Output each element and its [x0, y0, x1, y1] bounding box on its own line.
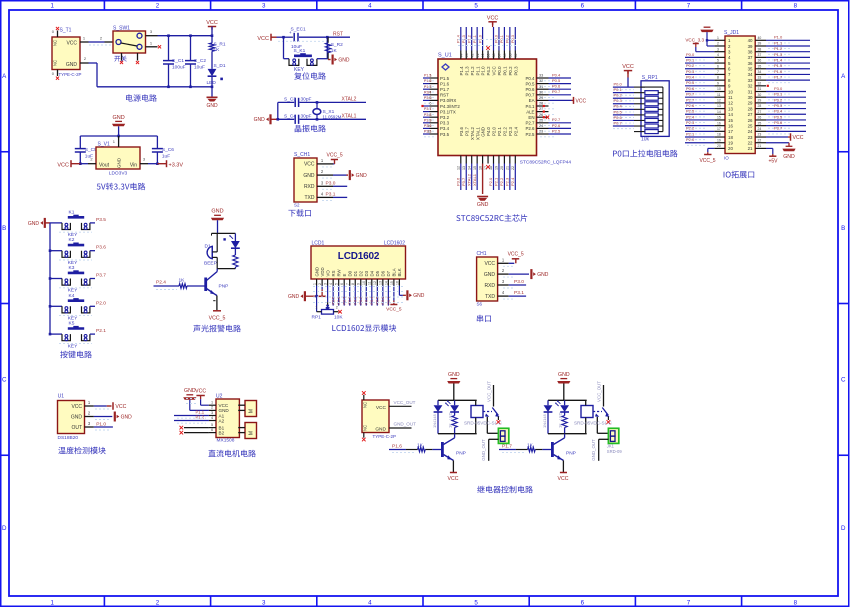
svg-text:XTAL2: XTAL2 — [466, 173, 471, 186]
svg-text:P3.3: P3.3 — [774, 103, 783, 108]
svg-text:17: 17 — [728, 129, 733, 134]
svg-text:35: 35 — [758, 64, 762, 68]
svg-text:XTAL1: XTAL1 — [342, 113, 357, 119]
svg-text:P0.6: P0.6 — [381, 297, 385, 305]
svg-text:P0.3: P0.3 — [686, 69, 695, 74]
svg-text:P1.6: P1.6 — [774, 69, 783, 74]
svg-text:2: 2 — [156, 3, 160, 10]
svg-text:8: 8 — [351, 283, 355, 285]
svg-text:VCC_5: VCC_5 — [209, 315, 226, 321]
svg-text:PNP: PNP — [566, 451, 576, 457]
svg-text:30: 30 — [539, 90, 543, 94]
svg-text:GND: GND — [206, 103, 218, 109]
svg-text:P2.6: P2.6 — [686, 103, 695, 108]
svg-text:31: 31 — [758, 87, 762, 91]
svg-text:1: 1 — [50, 3, 54, 10]
svg-text:38: 38 — [758, 47, 762, 51]
svg-text:S_K1: S_K1 — [294, 48, 306, 54]
svg-text:VCC: VCC — [793, 135, 804, 141]
svg-text:P3.6: P3.6 — [459, 126, 464, 136]
svg-text:32: 32 — [758, 81, 762, 85]
svg-text:27: 27 — [539, 107, 543, 111]
svg-text:13: 13 — [717, 104, 721, 108]
svg-text:6: 6 — [717, 64, 719, 68]
svg-text:P2.6: P2.6 — [552, 123, 561, 128]
svg-text:KEY: KEY — [294, 67, 305, 73]
svg-text:BLA: BLA — [392, 268, 397, 276]
svg-text:4: 4 — [368, 600, 372, 607]
svg-text:P4.0: P4.0 — [486, 126, 491, 136]
svg-text:26: 26 — [539, 113, 543, 117]
svg-text:TYPE-C-2P: TYPE-C-2P — [373, 434, 397, 439]
svg-text:33: 33 — [748, 78, 753, 83]
svg-text:P1.7: P1.7 — [440, 87, 450, 92]
svg-text:P0.2: P0.2 — [508, 66, 513, 76]
svg-text:KEY: KEY — [68, 232, 78, 238]
svg-text:CH1: CH1 — [477, 251, 487, 257]
svg-text:GND: GND — [211, 209, 223, 215]
svg-text:12: 12 — [717, 98, 721, 102]
svg-text:1: 1 — [717, 36, 719, 40]
svg-text:P2.7: P2.7 — [343, 297, 347, 305]
svg-text:30pF: 30pF — [301, 96, 312, 102]
svg-text:GND: GND — [558, 372, 570, 378]
svg-text:8: 8 — [717, 76, 719, 80]
svg-text:P1.7: P1.7 — [424, 85, 431, 89]
svg-text:P0.0: P0.0 — [614, 82, 623, 87]
svg-text:11: 11 — [728, 95, 733, 100]
svg-text:9: 9 — [717, 81, 719, 85]
svg-text:18: 18 — [489, 166, 493, 170]
svg-text:GND: GND — [254, 117, 266, 123]
svg-text:21: 21 — [758, 144, 762, 148]
svg-text:1K: 1K — [331, 48, 338, 54]
svg-text:S_RP1: S_RP1 — [642, 75, 658, 81]
svg-text:+5V: +5V — [768, 159, 778, 165]
svg-text:24: 24 — [539, 124, 543, 128]
svg-text:P2.0: P2.0 — [686, 137, 695, 142]
svg-text:D2: D2 — [359, 270, 364, 276]
svg-text:VCC_OUT: VCC_OUT — [487, 381, 492, 402]
svg-text:GND: GND — [71, 414, 83, 420]
svg-text:19: 19 — [728, 141, 733, 146]
svg-text:B: B — [2, 225, 6, 232]
svg-text:+3.3V: +3.3V — [169, 162, 184, 168]
svg-text:PNP: PNP — [219, 283, 229, 289]
svg-text:S_C3: S_C3 — [284, 96, 296, 102]
svg-text:37: 37 — [498, 54, 502, 58]
svg-text:24: 24 — [748, 129, 753, 134]
svg-text:6: 6 — [340, 283, 344, 285]
svg-text:P0.4: P0.4 — [614, 104, 623, 109]
svg-text:P0.5: P0.5 — [376, 297, 380, 305]
svg-text:P1.4: P1.4 — [459, 66, 464, 76]
svg-text:P3.1: P3.1 — [326, 192, 336, 198]
svg-text:36: 36 — [503, 54, 507, 58]
svg-text:RS: RS — [331, 270, 336, 276]
svg-text:37: 37 — [748, 55, 753, 60]
svg-text:4: 4 — [717, 53, 719, 57]
svg-text:SRD-05VDC-SL-C: SRD-05VDC-SL-C — [574, 420, 613, 425]
svg-text:S_C2: S_C2 — [194, 58, 206, 64]
svg-text:28: 28 — [748, 106, 753, 111]
svg-text:D: D — [2, 525, 7, 532]
svg-text:E: E — [342, 274, 347, 277]
svg-text:31: 31 — [539, 85, 543, 89]
svg-text:C: C — [841, 377, 846, 384]
svg-text:A2: A2 — [219, 418, 225, 423]
svg-text:RP1: RP1 — [312, 315, 322, 321]
svg-text:ALE: ALE — [526, 109, 534, 114]
svg-text:K3: K3 — [69, 265, 75, 271]
svg-text:LDO3V3: LDO3V3 — [109, 171, 128, 177]
svg-text:Vin: Vin — [130, 163, 137, 169]
svg-text:40: 40 — [481, 54, 485, 58]
svg-text:P2.0: P2.0 — [96, 300, 106, 306]
svg-text:38: 38 — [748, 49, 753, 54]
svg-text:M: M — [249, 431, 255, 435]
svg-text:12: 12 — [728, 101, 733, 106]
svg-text:P1.0: P1.0 — [96, 421, 106, 427]
svg-text:3: 3 — [262, 600, 266, 607]
svg-text:P2.7: P2.7 — [686, 97, 695, 102]
svg-text:LED: LED — [447, 412, 452, 420]
svg-text:P1.2: P1.2 — [774, 46, 783, 51]
svg-text:XTAL2: XTAL2 — [470, 126, 475, 140]
svg-text:S_R2: S_R2 — [331, 42, 343, 48]
svg-text:XTAL2: XTAL2 — [342, 96, 357, 102]
svg-text:GND: GND — [338, 57, 350, 63]
svg-text:LCD1602: LCD1602 — [338, 251, 380, 262]
svg-text:VCC: VCC — [448, 476, 459, 482]
svg-text:P2.6: P2.6 — [337, 297, 341, 305]
svg-text:P0.4: P0.4 — [552, 72, 561, 77]
svg-text:VCC: VCC — [66, 41, 77, 47]
svg-text:P0.5: P0.5 — [552, 78, 561, 83]
svg-text:15: 15 — [390, 281, 394, 285]
svg-text:K4: K4 — [69, 293, 75, 299]
svg-text:VCC: VCC — [195, 388, 206, 394]
svg-text:NC: NC — [53, 40, 58, 46]
svg-text:VCC_5: VCC_5 — [508, 252, 524, 258]
svg-text:30: 30 — [758, 93, 762, 97]
svg-text:SRD-05VDC-SL-C: SRD-05VDC-SL-C — [464, 420, 503, 425]
svg-text:S_U1: S_U1 — [438, 53, 452, 59]
svg-text:P3.5: P3.5 — [424, 130, 431, 134]
svg-text:GND_OUT: GND_OUT — [481, 439, 486, 461]
svg-text:D5: D5 — [375, 270, 380, 276]
svg-text:P0.6: P0.6 — [525, 87, 535, 92]
svg-text:24: 24 — [758, 127, 762, 131]
svg-text:P0.5: P0.5 — [525, 81, 535, 86]
svg-text:RW: RW — [336, 268, 341, 276]
svg-text:D1: D1 — [353, 270, 358, 276]
svg-text:10: 10 — [362, 281, 366, 285]
svg-text:P3.7: P3.7 — [461, 177, 466, 186]
svg-text:S_C4: S_C4 — [284, 113, 296, 119]
svg-text:15: 15 — [728, 118, 733, 123]
svg-text:1K: 1K — [179, 278, 186, 284]
svg-text:39: 39 — [748, 44, 753, 49]
svg-text:NC: NC — [363, 425, 368, 431]
svg-text:GND: GND — [117, 157, 122, 168]
svg-text:P3.6: P3.6 — [96, 245, 106, 251]
svg-text:3: 3 — [717, 47, 719, 51]
svg-text:GND: GND — [477, 202, 489, 208]
svg-text:P2.3: P2.3 — [508, 126, 513, 136]
svg-text:P2.5: P2.5 — [686, 109, 695, 114]
svg-text:3: 3 — [324, 283, 328, 285]
svg-text:NC: NC — [363, 402, 368, 408]
svg-text:VCC: VCC — [57, 162, 69, 168]
svg-text:18: 18 — [728, 135, 733, 140]
svg-text:30pF: 30pF — [301, 113, 312, 119]
svg-text:P3.7: P3.7 — [774, 126, 783, 131]
svg-text:41: 41 — [476, 54, 480, 58]
svg-text:10uF: 10uF — [194, 65, 205, 71]
svg-text:P3.4: P3.4 — [774, 109, 783, 114]
svg-text:P2.5: P2.5 — [332, 297, 336, 305]
svg-text:4: 4 — [368, 3, 372, 10]
svg-text:P0.0: P0.0 — [686, 52, 695, 57]
svg-text:VCC: VCC — [622, 64, 634, 70]
svg-text:2: 2 — [336, 306, 338, 310]
svg-text:LED: LED — [557, 412, 562, 420]
svg-text:P2.0: P2.0 — [492, 126, 497, 136]
svg-text:XTAL1: XTAL1 — [472, 173, 477, 186]
svg-text:34: 34 — [758, 70, 762, 74]
svg-text:4: 4 — [211, 416, 213, 420]
svg-text:29: 29 — [539, 96, 543, 100]
svg-text:P3.2: P3.2 — [424, 113, 431, 117]
svg-text:P1.0: P1.0 — [774, 35, 783, 40]
svg-text:1uF: 1uF — [162, 154, 170, 160]
svg-text:VCC: VCC — [558, 476, 569, 482]
svg-text:KEY: KEY — [68, 288, 78, 294]
svg-text:P1.3: P1.3 — [464, 66, 469, 76]
svg-text:P0.7: P0.7 — [686, 92, 695, 97]
svg-text:27: 27 — [758, 110, 762, 114]
svg-text:16: 16 — [395, 281, 399, 285]
svg-text:PNP: PNP — [456, 451, 466, 457]
svg-text:35: 35 — [508, 54, 512, 58]
svg-text:38: 38 — [492, 54, 496, 58]
svg-text:GND: GND — [537, 272, 549, 278]
svg-text:NC: NC — [53, 60, 58, 66]
svg-text:S_D1: S_D1 — [214, 63, 226, 69]
svg-text:11.0592M: 11.0592M — [323, 114, 342, 119]
svg-text:1K: 1K — [417, 442, 424, 448]
svg-text:5: 5 — [211, 423, 213, 427]
svg-text:13: 13 — [728, 106, 733, 111]
svg-text:P0.6: P0.6 — [552, 84, 561, 89]
svg-text:P3.2: P3.2 — [774, 97, 783, 102]
svg-text:VCC_3.3: VCC_3.3 — [685, 37, 704, 42]
svg-text:P0.7: P0.7 — [552, 89, 561, 94]
svg-text:GND: GND — [356, 173, 368, 179]
svg-text:S2: S2 — [294, 203, 300, 208]
svg-text:GND: GND — [288, 294, 300, 300]
svg-text:7: 7 — [346, 283, 350, 285]
svg-text:19: 19 — [495, 166, 499, 170]
svg-text:P3.4: P3.4 — [424, 124, 431, 128]
svg-text:29: 29 — [748, 101, 753, 106]
svg-text:P3.3: P3.3 — [424, 118, 431, 122]
svg-text:GND: GND — [481, 127, 486, 137]
svg-text:26: 26 — [758, 116, 762, 120]
svg-text:7: 7 — [687, 3, 691, 10]
svg-text:P3.1: P3.1 — [424, 107, 431, 111]
svg-text:44: 44 — [459, 54, 463, 58]
svg-text:GND: GND — [66, 62, 78, 68]
svg-text:GND: GND — [28, 221, 40, 227]
svg-text:2: 2 — [717, 42, 719, 46]
svg-text:4: 4 — [329, 283, 333, 285]
svg-text:1N4148: 1N4148 — [542, 414, 547, 428]
svg-text:P1.5: P1.5 — [424, 74, 431, 78]
svg-text:P1.7: P1.7 — [502, 444, 512, 450]
svg-text:GND: GND — [184, 388, 196, 394]
svg-text:P2.5: P2.5 — [525, 132, 535, 137]
svg-text:1N4148: 1N4148 — [432, 414, 437, 428]
svg-text:VDD: VDD — [320, 267, 325, 276]
svg-text:P4.1: P4.1 — [525, 104, 535, 109]
svg-text:1: 1 — [313, 283, 317, 285]
svg-text:XTAL1: XTAL1 — [475, 126, 480, 140]
svg-text:P2.1: P2.1 — [686, 131, 695, 136]
svg-text:11: 11 — [368, 281, 372, 285]
svg-text:K5: K5 — [69, 321, 75, 327]
svg-text:35: 35 — [748, 67, 753, 72]
svg-text:P2.2: P2.2 — [686, 126, 695, 131]
svg-text:7: 7 — [687, 600, 691, 607]
svg-text:P0.1: P0.1 — [354, 297, 358, 305]
svg-text:19: 19 — [717, 138, 721, 142]
svg-text:VCC: VCC — [257, 36, 269, 42]
svg-text:P2.3: P2.3 — [686, 120, 695, 125]
svg-text:6: 6 — [429, 102, 431, 106]
svg-text:20: 20 — [500, 166, 504, 170]
svg-text:8: 8 — [794, 600, 798, 607]
svg-text:2: 2 — [156, 600, 160, 607]
svg-text:GND_OUT: GND_OUT — [394, 422, 417, 427]
svg-text:P1.4: P1.4 — [774, 57, 783, 62]
svg-text:VCC_5: VCC_5 — [327, 152, 343, 158]
svg-text:7: 7 — [717, 70, 719, 74]
svg-text:P3.1/TX: P3.1/TX — [440, 109, 456, 114]
svg-text:P2.4: P2.4 — [513, 126, 518, 136]
svg-text:P1.7: P1.7 — [774, 75, 783, 80]
svg-text:K1: K1 — [69, 209, 75, 215]
svg-text:VCC: VCC — [206, 20, 218, 26]
svg-text:1K: 1K — [214, 47, 221, 53]
svg-text:C: C — [2, 377, 7, 384]
svg-text:14: 14 — [728, 112, 733, 117]
svg-text:12: 12 — [457, 166, 461, 170]
svg-text:32: 32 — [748, 84, 753, 89]
svg-text:D0: D0 — [348, 270, 353, 276]
svg-text:30: 30 — [748, 95, 753, 100]
svg-text:P2.1: P2.1 — [96, 328, 106, 334]
svg-text:P1.6: P1.6 — [440, 81, 450, 86]
svg-text:36: 36 — [748, 61, 753, 66]
svg-text:S_C1: S_C1 — [172, 58, 184, 64]
svg-text:34: 34 — [748, 72, 753, 77]
svg-text:1: 1 — [50, 600, 54, 607]
svg-text:B2: B2 — [219, 430, 225, 435]
svg-text:S6: S6 — [477, 302, 483, 307]
svg-text:P1.6: P1.6 — [424, 79, 431, 83]
svg-text:P3.6: P3.6 — [774, 120, 783, 125]
svg-text:P1.2: P1.2 — [470, 66, 475, 76]
svg-text:TYPE-C-2P: TYPE-C-2P — [59, 72, 82, 77]
svg-text:23: 23 — [539, 130, 543, 134]
svg-text:P0.7: P0.7 — [614, 120, 623, 125]
svg-text:39: 39 — [758, 42, 762, 46]
svg-text:10: 10 — [728, 89, 733, 94]
svg-text:1: 1 — [211, 401, 213, 405]
svg-text:P3.0: P3.0 — [774, 86, 783, 91]
svg-text:BLK: BLK — [397, 268, 402, 276]
svg-text:P3.6: P3.6 — [456, 177, 461, 186]
svg-text:40: 40 — [758, 36, 762, 40]
svg-text:28: 28 — [539, 102, 543, 106]
svg-text:6: 6 — [581, 3, 585, 10]
svg-text:20: 20 — [728, 146, 733, 151]
svg-text:22: 22 — [758, 138, 762, 142]
svg-text:D1: D1 — [205, 243, 211, 249]
svg-text:MX1508: MX1508 — [217, 437, 235, 443]
svg-text:JK1: JK1 — [607, 443, 615, 448]
svg-text:3: 3 — [262, 3, 266, 10]
svg-text:S_C5: S_C5 — [85, 147, 97, 153]
svg-text:VO: VO — [325, 270, 330, 277]
svg-text:P3.5: P3.5 — [774, 114, 783, 119]
svg-text:VCC_OUT: VCC_OUT — [394, 400, 416, 405]
svg-text:36: 36 — [758, 59, 762, 63]
svg-text:12: 12 — [373, 281, 377, 285]
svg-text:P1.6: P1.6 — [392, 444, 402, 450]
svg-text:16: 16 — [728, 123, 733, 128]
svg-text:K2: K2 — [69, 237, 75, 243]
svg-text:P1.1: P1.1 — [774, 40, 783, 45]
svg-text:GND: GND — [448, 372, 460, 378]
svg-text:TXD: TXD — [485, 294, 495, 300]
svg-text:D: D — [841, 525, 846, 532]
svg-text:S_R1: S_R1 — [214, 41, 226, 47]
svg-text:25: 25 — [539, 118, 543, 122]
svg-text:EA: EA — [529, 98, 535, 103]
svg-text:VCC: VCC — [484, 261, 495, 267]
svg-text:B: B — [841, 225, 845, 232]
svg-text:VCC_5: VCC_5 — [386, 307, 402, 313]
svg-text:P2.2: P2.2 — [503, 126, 508, 136]
svg-text:P0.0: P0.0 — [497, 66, 502, 76]
svg-text:P3.5: P3.5 — [440, 132, 450, 137]
svg-text:P0.7: P0.7 — [525, 93, 535, 98]
svg-text:P2.1: P2.1 — [497, 126, 502, 136]
svg-text:18: 18 — [717, 133, 721, 137]
svg-text:IO: IO — [724, 156, 729, 161]
svg-text:P0.6: P0.6 — [686, 86, 695, 91]
svg-text:1K: 1K — [447, 423, 452, 428]
svg-text:P1.5: P1.5 — [440, 76, 450, 81]
svg-text:S_T1: S_T1 — [60, 28, 72, 34]
svg-text:KEY: KEY — [68, 260, 78, 266]
svg-text:RXD: RXD — [484, 283, 495, 289]
svg-text:KEY: KEY — [68, 316, 78, 322]
svg-text:P2.6: P2.6 — [525, 126, 535, 131]
